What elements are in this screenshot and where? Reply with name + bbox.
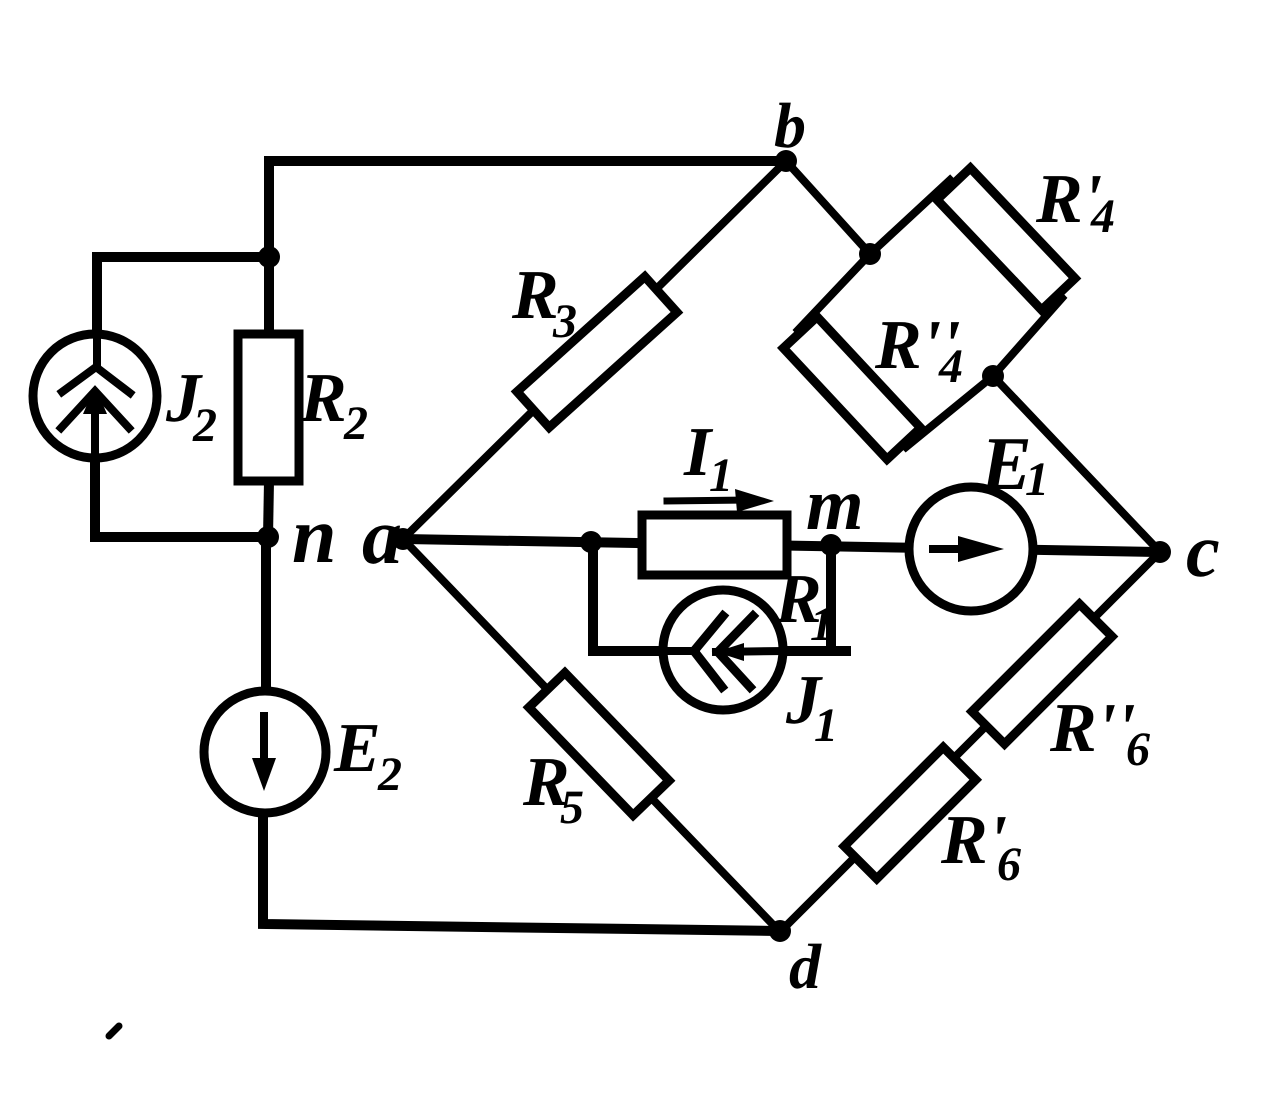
wire b to junction j1 xyxy=(786,161,870,254)
resistor R''4 xyxy=(783,317,920,460)
svg-text:3: 3 xyxy=(552,295,577,348)
wire J1 loop left and bottom xyxy=(593,542,846,651)
voltage source E2 xyxy=(204,691,326,813)
node b xyxy=(775,150,797,172)
svg-text:2: 2 xyxy=(377,748,402,801)
wire E2 to bottom corner to node d xyxy=(263,810,780,931)
wire a to b diagonal xyxy=(403,161,786,539)
wire R2 bottom to node n xyxy=(268,481,269,537)
svg-text:6: 6 xyxy=(997,838,1021,891)
wire J2 top tap xyxy=(97,257,269,368)
wire J2 bottom to node n xyxy=(95,455,268,537)
svg-text:n: n xyxy=(292,492,337,580)
tick mark xyxy=(109,1026,119,1036)
node c xyxy=(1149,541,1171,563)
svg-text:b: b xyxy=(774,90,806,161)
node junction j2 xyxy=(982,365,1004,387)
wire a to d diagonal xyxy=(403,539,780,932)
svg-text:2: 2 xyxy=(192,399,217,452)
svg-text:4: 4 xyxy=(1090,190,1115,243)
current source J1 xyxy=(663,590,783,710)
svg-text:a: a xyxy=(362,493,402,581)
svg-text:5: 5 xyxy=(560,781,584,834)
svg-text:E: E xyxy=(333,710,381,787)
svg-text:4: 4 xyxy=(938,340,963,393)
node n xyxy=(257,526,279,548)
node junction mid xyxy=(580,531,602,553)
svg-text:1: 1 xyxy=(1025,453,1049,506)
wire R'4 branch upper loop xyxy=(870,180,1062,376)
resistor R3 xyxy=(517,277,677,428)
svg-text:d: d xyxy=(789,931,822,1002)
svg-text:R: R xyxy=(511,257,559,334)
svg-text:1: 1 xyxy=(810,598,834,651)
resistor R'4 xyxy=(937,168,1075,310)
resistor R''6 xyxy=(972,604,1112,744)
svg-text:2: 2 xyxy=(343,397,368,450)
svg-text:c: c xyxy=(1186,509,1220,593)
node junction j1 xyxy=(859,243,881,265)
wire R''4 branch lower loop xyxy=(798,254,993,447)
node a xyxy=(392,528,414,550)
svg-text:R: R xyxy=(299,360,347,437)
wire top: b to left corner down to R2 xyxy=(269,161,786,334)
node m xyxy=(820,534,842,556)
svg-text:6: 6 xyxy=(1126,723,1150,776)
current source J2 xyxy=(33,334,157,458)
svg-text:1: 1 xyxy=(709,449,733,502)
resistor R1 xyxy=(642,515,787,575)
wire J1 loop right xyxy=(826,545,836,651)
voltage source E1 xyxy=(909,487,1033,611)
wire middle a to c xyxy=(403,539,1160,552)
wire n to E2 xyxy=(261,537,271,695)
arrow I1 xyxy=(667,489,774,512)
svg-text:R'': R'' xyxy=(1049,690,1136,767)
svg-text:E: E xyxy=(980,422,1032,506)
resistor R'6 xyxy=(844,747,976,879)
resistor R2 xyxy=(238,334,299,481)
resistor R5 xyxy=(529,673,669,816)
node d xyxy=(769,920,791,942)
svg-text:1: 1 xyxy=(814,699,838,752)
node junction left tap xyxy=(258,246,280,268)
wire d to c diagonal xyxy=(780,552,1160,932)
svg-text:m: m xyxy=(806,464,864,546)
wire j2 to c xyxy=(993,376,1160,552)
